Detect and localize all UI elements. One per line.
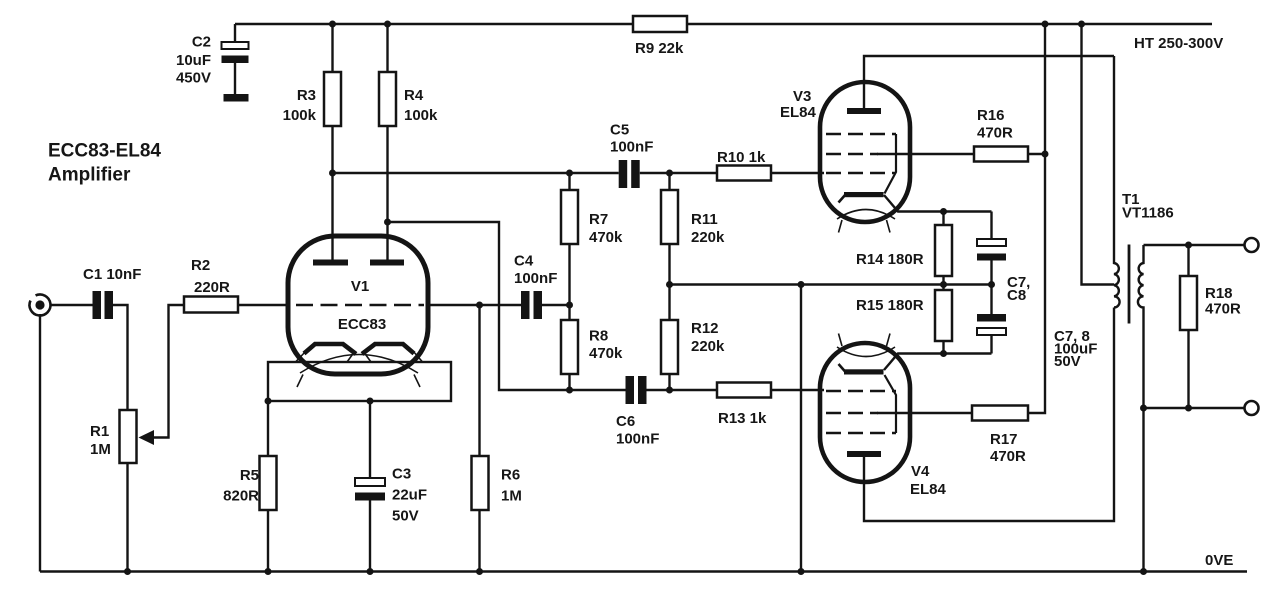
output terminal bottom: [1245, 401, 1259, 415]
svg-text:EL84: EL84: [910, 481, 947, 498]
ground rail wire 0V: [40, 570, 1247, 572]
resistor R16: [974, 107, 1045, 162]
resistor R11: [661, 173, 725, 246]
svg-text:R15 180R: R15 180R: [856, 297, 924, 314]
capacitor C3: [355, 401, 427, 572]
svg-text:100nF: 100nF: [616, 431, 659, 448]
wire V4 anode to transformer: [864, 308, 1114, 522]
svg-text:100nF: 100nF: [514, 270, 557, 287]
resistor R14: [856, 212, 952, 285]
resistor R3: [283, 24, 341, 262]
V1 anode plate a: [313, 260, 348, 266]
V1 label: [338, 278, 386, 333]
svg-text:220k: 220k: [691, 338, 725, 355]
output terminal top: [1245, 238, 1259, 252]
svg-text:C5: C5: [610, 122, 629, 139]
resistor R9: [633, 16, 687, 57]
svg-text:R3: R3: [297, 87, 316, 104]
V3 anode plate: [847, 108, 881, 114]
tube V1 envelope: [288, 236, 428, 374]
svg-text:HT 250-300V: HT 250-300V: [1134, 35, 1223, 52]
wire R2 to V1 grid: [238, 304, 290, 306]
svg-text:C3: C3: [392, 466, 411, 483]
tube V4 envelope: [820, 343, 910, 482]
wire HT centre tap: [1082, 24, 1115, 285]
svg-text:C2: C2: [192, 34, 211, 51]
V1 cathode support wires: [295, 351, 423, 363]
wire C1 to R1 top: [113, 305, 128, 410]
capacitor C7: [977, 212, 1006, 315]
capacitor C2: [176, 24, 249, 94]
svg-text:R12: R12: [691, 320, 719, 337]
C7 C8 value label: [1054, 328, 1097, 370]
svg-text:C4: C4: [514, 253, 534, 270]
V4 anode plate: [847, 451, 881, 457]
wire jack ground: [39, 314, 41, 572]
V1 grid dashed line: [296, 304, 424, 306]
resistor R7: [561, 173, 623, 246]
resistor R17: [972, 406, 1028, 466]
svg-text:R14 180R: R14 180R: [856, 251, 924, 268]
svg-text:220R: 220R: [194, 279, 230, 296]
V1 cathode b: [362, 344, 414, 354]
svg-text:R1: R1: [90, 423, 109, 440]
svg-text:10uF: 10uF: [176, 52, 211, 69]
svg-text:450V: 450V: [176, 70, 211, 87]
wire secondary bottom to output: [1144, 407, 1245, 409]
title text: [48, 141, 161, 186]
V4 label: [910, 463, 947, 498]
capacitor C6: [616, 376, 659, 448]
V1 cathode return box: [268, 362, 451, 401]
V1 cathode a: [304, 344, 356, 354]
svg-text:V4: V4: [911, 463, 930, 480]
wire anode rail y173: [333, 172, 619, 174]
svg-text:R10 1k: R10 1k: [717, 149, 766, 166]
V3 heater lead arcs: [839, 220, 891, 233]
svg-text:R13 1k: R13 1k: [718, 410, 767, 427]
wire C6 right to V4 grid: [647, 389, 825, 391]
capacitor C5: [610, 122, 653, 189]
svg-text:V1: V1: [351, 278, 369, 295]
svg-text:R7: R7: [589, 211, 608, 228]
V4 heater lead arcs: [839, 334, 891, 347]
svg-text:R5: R5: [240, 467, 259, 484]
resistor R5: [223, 401, 276, 572]
wire C4 to R7 R8 junction: [542, 304, 570, 306]
svg-text:R11: R11: [691, 211, 718, 228]
svg-text:C6: C6: [616, 413, 635, 430]
resistor R12: [661, 320, 725, 390]
svg-text:ECC83: ECC83: [338, 316, 386, 333]
resistor R6: [472, 305, 522, 572]
wire C5 to R10 rail: [640, 172, 824, 174]
svg-text:470k: 470k: [589, 229, 623, 246]
wire V3 cathode lead: [884, 195, 992, 212]
resistor R2: [184, 257, 238, 313]
V4 cathode bar: [844, 369, 884, 374]
svg-text:470R: 470R: [990, 448, 1026, 465]
resistor R13: [717, 383, 771, 428]
svg-text:100nF: 100nF: [610, 139, 653, 156]
V3 grid g1 dashed: [826, 172, 896, 174]
svg-text:50V: 50V: [392, 508, 419, 525]
HT rail wire: [235, 23, 1212, 25]
T1 label: [1122, 191, 1174, 222]
svg-text:22uF: 22uF: [392, 487, 427, 504]
transformer T1 core: [1128, 245, 1131, 324]
svg-text:100k: 100k: [404, 107, 438, 124]
wire secondary to ground: [1142, 408, 1144, 572]
svg-text:R16: R16: [977, 107, 1005, 124]
svg-text:0VE: 0VE: [1205, 552, 1233, 569]
C7 C8 label: [1007, 274, 1030, 304]
resistor R15: [856, 285, 952, 354]
wire R1 bottom to ground: [126, 463, 128, 572]
wire bias rail y283: [670, 283, 992, 285]
wire jack to C1: [51, 304, 93, 306]
svg-text:R17: R17: [990, 431, 1018, 448]
wire HT screens feed: [1028, 24, 1045, 413]
resistor R8: [561, 320, 623, 390]
svg-text:1M: 1M: [501, 488, 522, 505]
svg-text:ECC83-EL84: ECC83-EL84: [48, 141, 161, 162]
transformer T1 primary winding: [1114, 56, 1120, 308]
svg-text:R18: R18: [1205, 285, 1233, 302]
V1 heater arc: [300, 355, 418, 374]
resistor R10: [717, 149, 771, 181]
V3 cathode bar: [844, 192, 884, 197]
svg-text:R8: R8: [589, 328, 608, 345]
V3 grid g3 dashed: [826, 133, 896, 135]
V3 heater arc: [837, 210, 895, 220]
wire V4 g2 to R17: [877, 412, 972, 414]
svg-text:820R: 820R: [223, 488, 259, 505]
wire R7 to R8: [568, 244, 570, 320]
tube V3 envelope: [820, 82, 910, 222]
wire R11 to R12: [668, 244, 670, 320]
V3 grid g2 dashed: [826, 153, 878, 155]
wire V1 anode2 to C6 rail: [388, 222, 626, 390]
V3 g3 to cathode strap: [885, 134, 897, 194]
V3 label: [780, 88, 817, 121]
svg-text:R2: R2: [191, 257, 210, 274]
svg-text:220k: 220k: [691, 229, 725, 246]
capacitor C8: [977, 314, 1006, 354]
svg-text:Amplifier: Amplifier: [48, 165, 131, 186]
svg-text:C8: C8: [1007, 287, 1026, 304]
svg-text:100k: 100k: [283, 107, 317, 124]
svg-text:50V: 50V: [1054, 353, 1081, 370]
wire V1 grid exit to C4: [428, 304, 521, 306]
svg-text:R4: R4: [404, 87, 424, 104]
ground symbol for C2: [224, 94, 249, 102]
svg-text:470R: 470R: [977, 125, 1013, 142]
svg-text:R9 22k: R9 22k: [635, 40, 684, 57]
wire V3 anode to transformer: [864, 56, 1114, 108]
svg-text:1M: 1M: [90, 441, 111, 458]
V4 g3 to cathode strap: [885, 375, 897, 433]
capacitor C1: [83, 266, 141, 319]
wire V4 cathode lead: [884, 354, 992, 371]
potentiometer R1: [90, 410, 154, 463]
wire R1 wiper to R2: [154, 305, 184, 438]
V4 grid g3 dashed: [826, 432, 896, 434]
resistor R18: [1180, 245, 1241, 408]
svg-text:R6: R6: [501, 467, 520, 484]
transformer T1 secondary winding: [1138, 245, 1144, 408]
capacitor C4: [514, 253, 557, 320]
V4 heater arc: [837, 347, 895, 357]
wire V3 g2 to R16: [877, 153, 974, 155]
V4 grid g1 dashed: [826, 390, 896, 392]
wire bias rail to ground: [800, 285, 802, 572]
svg-text:C1 10nF: C1 10nF: [83, 266, 141, 283]
V1 heater lead arcs: [297, 375, 420, 388]
svg-text:VT1186: VT1186: [1122, 205, 1174, 222]
svg-text:470k: 470k: [589, 345, 623, 362]
input jack J1: [29, 294, 50, 315]
V4 grid g2 dashed: [826, 412, 878, 414]
wire secondary top to output: [1144, 244, 1245, 246]
svg-text:EL84: EL84: [780, 104, 817, 121]
svg-text:470R: 470R: [1205, 301, 1241, 318]
V1 anode plate b: [370, 260, 404, 266]
svg-text:V3: V3: [793, 88, 811, 105]
resistor R4: [379, 24, 438, 262]
